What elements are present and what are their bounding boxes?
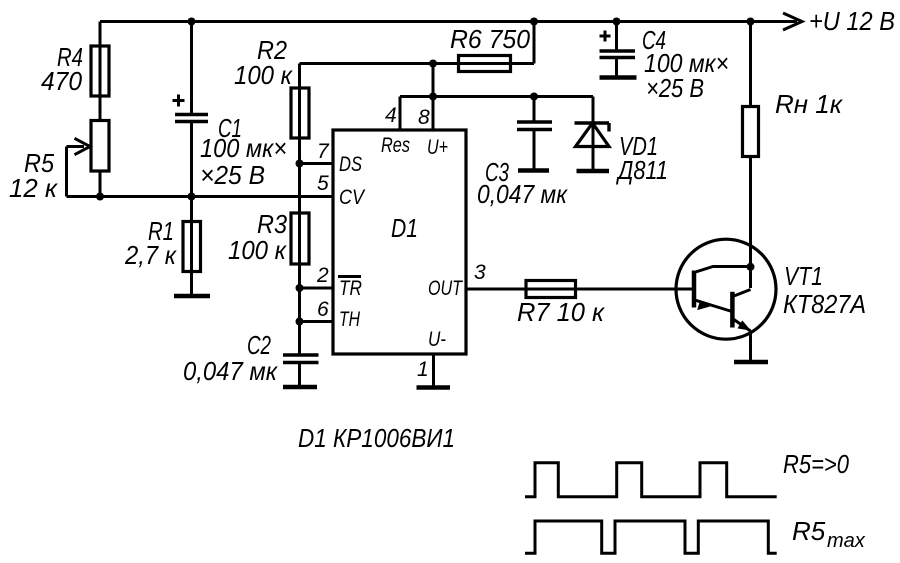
top +U rail wire	[100, 20, 797, 23]
junction dot rail R6	[530, 18, 538, 26]
waveform R5 max	[525, 521, 777, 553]
ground C4	[600, 75, 637, 80]
potentiometer R5	[91, 121, 109, 172]
svg-text:Rн 1к: Rн 1к	[775, 89, 844, 119]
ground pin 1	[417, 385, 451, 390]
svg-text:R6 750: R6 750	[450, 24, 531, 54]
zener VD1	[592, 97, 595, 147]
wire R2 top to R6	[300, 62, 535, 65]
wire pin 2	[300, 287, 334, 290]
junction dot R2/R6 riser	[429, 60, 437, 68]
svg-text:12 к: 12 к	[9, 173, 59, 203]
VT1 Q2 base bar	[730, 292, 735, 328]
+U arrowhead	[783, 13, 802, 30]
svg-text:×25 В: ×25 В	[646, 73, 704, 103]
svg-text:0,047 мк: 0,047 мк	[477, 179, 569, 209]
svg-text:2,7 к: 2,7 к	[124, 240, 177, 270]
wire pin 7	[300, 162, 334, 165]
svg-text:R5=>0: R5=>0	[783, 449, 849, 479]
junction dot R4/R5 bottom	[96, 193, 104, 201]
VT1 Q1 emitter	[694, 300, 732, 312]
VT1 Q2 collector	[733, 290, 751, 297]
junction dot C1 bottom	[188, 193, 196, 201]
VT1 Q1 base bar	[692, 271, 697, 308]
C1 plus sign	[173, 99, 185, 102]
svg-text:R7 10 к: R7 10 к	[517, 297, 606, 327]
ground C3	[518, 168, 549, 173]
wire R4/R5 branch	[99, 22, 102, 197]
svg-text:Res: Res	[381, 134, 410, 157]
resistor R1	[190, 197, 193, 297]
VT1 Q2 emitter	[732, 319, 750, 332]
svg-text:TH: TH	[339, 308, 361, 331]
wire pin 1	[432, 354, 435, 387]
wire pin 4	[399, 97, 402, 131]
waveform R5=>0	[525, 463, 777, 497]
svg-text:0,047 мк: 0,047 мк	[183, 356, 279, 386]
svg-text:1: 1	[417, 358, 429, 381]
capacitor C1	[190, 22, 193, 114]
wire R5 wiper down	[65, 147, 68, 197]
wire OUT to base	[466, 288, 693, 291]
svg-text:TR: TR	[339, 277, 362, 300]
resistor R7	[526, 281, 576, 298]
svg-text:Д811: Д811	[615, 155, 668, 185]
junction dot pin 2	[296, 284, 304, 292]
R5 wiper arrow	[67, 145, 85, 148]
svg-text:470: 470	[41, 66, 83, 96]
svg-text:100 к: 100 к	[234, 60, 294, 90]
svg-text:U+: U+	[427, 136, 448, 159]
junction dot pin8 net	[429, 93, 437, 101]
ground C2	[283, 385, 317, 390]
junction dot C4 rail	[613, 18, 621, 26]
svg-text:OUT: OUT	[428, 277, 464, 300]
wire riser to pin8 net	[432, 64, 435, 97]
svg-text:КТ827А: КТ827А	[783, 289, 866, 319]
transistor VT1 circle	[676, 239, 776, 339]
wire CV net bottom-left horizontal	[67, 195, 334, 198]
svg-text:4: 4	[385, 104, 397, 127]
resistor R2	[291, 88, 309, 138]
svg-text:3: 3	[474, 261, 486, 284]
svg-text:100 мк×: 100 мк×	[200, 133, 287, 163]
svg-text:VT1: VT1	[784, 261, 823, 291]
svg-text:CV: CV	[339, 186, 366, 209]
IC D1 box	[333, 130, 466, 354]
ground R1	[174, 294, 210, 299]
svg-text:8: 8	[418, 106, 430, 129]
ground VD1	[577, 169, 610, 174]
wire R2/R3 vertical	[298, 64, 301, 356]
capacitor C4	[615, 22, 618, 50]
VT1 Q1 collector	[694, 267, 751, 273]
capacitor C3	[530, 93, 538, 101]
svg-text:max: max	[827, 530, 866, 552]
TR overline	[338, 275, 361, 278]
svg-text:D1 КР1006ВИ1: D1 КР1006ВИ1	[298, 423, 455, 453]
svg-text:+U 12 В: +U 12 В	[809, 6, 895, 36]
wire R6 right riser	[533, 22, 536, 64]
resistor R6	[459, 56, 511, 72]
svg-text:6: 6	[317, 298, 329, 321]
junction dot C1 rail	[188, 18, 196, 26]
svg-text:5: 5	[317, 172, 329, 195]
svg-text:U-: U-	[428, 328, 446, 351]
resistor R3	[291, 213, 309, 264]
svg-text:100 к: 100 к	[228, 235, 288, 265]
svg-text:7: 7	[317, 140, 330, 163]
junction dot Rн rail	[747, 18, 755, 26]
svg-text:×25 В: ×25 В	[200, 160, 265, 190]
svg-text:2: 2	[316, 264, 329, 287]
svg-text:D1: D1	[391, 213, 418, 243]
wire collector vertical	[749, 22, 752, 289]
wire pin 8	[432, 97, 435, 131]
capacitor C2	[283, 353, 319, 356]
C4 plus sign	[600, 35, 611, 38]
resistor Rн	[743, 107, 759, 157]
ground VT1	[734, 360, 768, 365]
svg-text:R5: R5	[792, 516, 826, 546]
resistor R4	[91, 46, 109, 96]
wire pin 6	[300, 320, 334, 323]
wire emitter down	[749, 332, 752, 362]
wire pin8/C3/VD1 net	[400, 95, 593, 98]
junction dot pin 6	[296, 318, 304, 326]
junction dot collector	[747, 263, 755, 271]
svg-text:DS: DS	[339, 153, 362, 176]
junction dot pin 7	[296, 160, 304, 168]
